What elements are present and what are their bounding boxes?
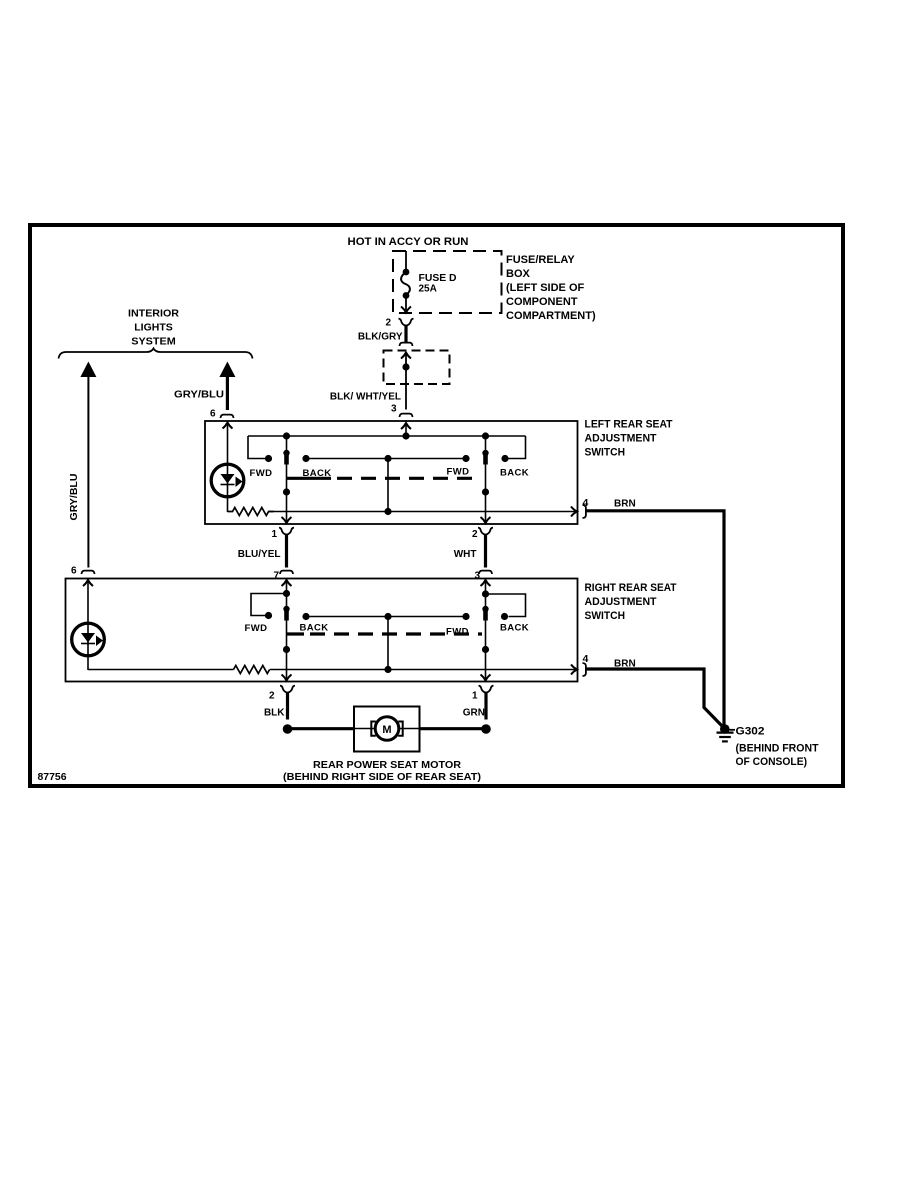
FRAME (decorative border, unlabeled content) <box>30 225 843 786</box>
switch wiper BACK (right) <box>485 580 487 681</box>
svg-text:FUSE/RELAY: FUSE/RELAY <box>506 254 575 266</box>
switch 1 pin 6 entry arrow <box>223 423 233 429</box>
right rear seat adjustment switch outline <box>66 579 578 682</box>
wire pin 6 to lamp <box>87 580 89 670</box>
cross wire BACK-FWD <box>306 458 466 460</box>
svg-text:BLK/GRY: BLK/GRY <box>358 332 403 343</box>
wire BRN (lower) <box>586 669 724 728</box>
connector (female cup, right switch pin 1) <box>479 686 494 693</box>
svg-text:G302: G302 <box>736 726 765 738</box>
svg-text:BLK: BLK <box>264 708 285 719</box>
connector (female cap, switch pin 3) <box>400 414 413 417</box>
cross wire BACK-FWD <box>306 616 466 618</box>
junction dot rail/wiper FWD <box>283 432 290 439</box>
wire cross to feed <box>387 459 389 512</box>
label REAR POWER SEAT MOTOR (BEHIND RIGHT SIDE OF REAR SEAT) <box>283 759 481 783</box>
svg-text:6: 6 <box>210 409 216 420</box>
connector (female cap, right switch pin 3) <box>479 571 492 574</box>
svg-text:REAR POWER SEAT MOTOR: REAR POWER SEAT MOTOR <box>313 759 461 771</box>
label INTERIOR LIGHTS SYSTEM <box>128 308 179 348</box>
junction dot BLK/motor <box>283 724 293 734</box>
svg-text:1: 1 <box>271 529 277 540</box>
svg-text:(LEFT SIDE OF: (LEFT SIDE OF <box>506 282 585 294</box>
wire BACK contact loop <box>509 436 526 459</box>
motor brush left <box>371 722 376 736</box>
switch 2 pin 1 arrow (down, out) <box>481 675 491 681</box>
wire BRN (upper) <box>586 511 724 726</box>
wire FWD contact loop <box>251 594 287 616</box>
svg-text:OF CONSOLE): OF CONSOLE) <box>736 756 808 768</box>
wire BLK/GRY <box>404 326 407 343</box>
svg-text:BACK: BACK <box>500 468 529 479</box>
connector (female cap, right switch pin 6) <box>82 571 95 574</box>
resistor (right switch) <box>234 666 270 674</box>
svg-text:BOX: BOX <box>506 268 531 280</box>
svg-text:2: 2 <box>385 318 391 329</box>
switch 2 pin 4 arrow (out) <box>571 665 577 675</box>
switch 1 pin 4 arrow (out) <box>571 507 577 517</box>
motor M1 <box>375 717 399 741</box>
switch 2 pin 6 entry arrow <box>83 580 93 586</box>
junction dot pin3/rail <box>402 432 409 439</box>
left rear seat adjustment switch outline <box>205 421 578 524</box>
wire lamp to resistor <box>88 669 234 671</box>
fuse D 25A <box>401 251 411 313</box>
wire from pin 6 to lamp <box>227 423 229 513</box>
svg-text:BRN: BRN <box>614 499 636 510</box>
rear power seat motor box <box>354 707 420 752</box>
svg-text:2: 2 <box>472 529 478 540</box>
connector (female cap, pin 4) <box>583 505 586 518</box>
label G302 (BEHIND FRONT OF CONSOLE) <box>736 726 819 769</box>
svg-text:1: 1 <box>472 690 478 701</box>
svg-text:BRN: BRN <box>614 659 636 670</box>
wire GRY/BLU left (to interior lights) <box>80 362 96 378</box>
svg-text:LIGHTS: LIGHTS <box>134 322 173 334</box>
wire pin4 feed line (bottom internal) <box>269 511 577 513</box>
svg-text:BACK: BACK <box>500 623 529 634</box>
connector (female cup, right switch pin 2) <box>280 686 295 693</box>
switch wiper BACK (right) <box>485 436 487 523</box>
svg-text:COMPARTMENT): COMPARTMENT) <box>506 310 596 322</box>
switch 1 pin 2 arrow (down, out) <box>481 517 491 523</box>
junction dot rail/wiper BACK <box>482 432 489 439</box>
fuse value label FUSE D 25A <box>419 273 457 295</box>
BACK contact dot <box>501 613 508 620</box>
svg-text:(BEHIND FRONT: (BEHIND FRONT <box>736 743 819 755</box>
svg-text:BACK: BACK <box>300 623 329 634</box>
svg-text:25A: 25A <box>419 284 437 295</box>
svg-text:M: M <box>382 724 391 736</box>
FWD contact dot <box>265 612 272 619</box>
switch wiper FWD (left) <box>286 436 288 523</box>
motor internal wire <box>354 728 420 730</box>
wire BACK contact loop <box>486 594 526 617</box>
junction block arrow (male, pin up) <box>401 353 411 359</box>
svg-text:SWITCH: SWITCH <box>585 447 626 459</box>
interior lights system brace <box>59 349 253 359</box>
connector (female cup, fuse box pin 2) <box>399 319 414 326</box>
switch 2 pin 7 entry arrow <box>282 580 292 586</box>
svg-text:BLK/ WHT/YEL: BLK/ WHT/YEL <box>330 392 401 403</box>
ground G302 <box>720 724 730 734</box>
svg-text:6: 6 <box>71 566 77 577</box>
illumination lamp (right switch) <box>72 623 105 656</box>
svg-text:7: 7 <box>273 571 279 582</box>
svg-text:BLU/YEL: BLU/YEL <box>238 549 281 560</box>
connector (female cup, pin 2) <box>478 528 493 535</box>
svg-text:(BEHIND RIGHT SIDE OF REAR SEA: (BEHIND RIGHT SIDE OF REAR SEAT) <box>283 771 481 783</box>
connector (female cap, pin 7) <box>280 571 293 574</box>
mechanical linkage (dashed) <box>287 632 305 635</box>
label RIGHT REAR SEAT ADJUSTMENT SWITCH <box>585 582 677 622</box>
svg-text:2: 2 <box>269 690 275 701</box>
fuse/relay box (dashed outline) <box>393 251 502 313</box>
FWD contact dot <box>265 455 272 462</box>
connector (female cap, left switch pin 6) <box>221 415 234 418</box>
svg-text:LEFT REAR SEAT: LEFT REAR SEAT <box>585 419 673 431</box>
svg-text:WHT: WHT <box>454 549 477 560</box>
wire GRY/BLU right (to interior lights) <box>219 362 235 378</box>
illumination lamp (left switch) <box>211 464 244 497</box>
svg-text:FWD: FWD <box>447 467 470 478</box>
connector (female cap to junction block) <box>400 343 413 346</box>
switch wiper FWD (left) <box>286 580 288 681</box>
svg-text:ADJUSTMENT: ADJUSTMENT <box>585 596 657 608</box>
svg-text:GRY/BLU: GRY/BLU <box>174 390 224 401</box>
svg-text:FWD: FWD <box>250 468 273 479</box>
wire FWD contact loop <box>248 436 265 459</box>
junction dot GRN/motor <box>481 724 491 734</box>
wire WHT <box>484 535 487 568</box>
mechanical linkage (dashed) <box>287 477 332 480</box>
svg-text:RIGHT REAR SEAT: RIGHT REAR SEAT <box>585 582 677 594</box>
wire through junction block <box>405 353 407 410</box>
svg-text:FWD: FWD <box>446 627 469 638</box>
switch 2 pin 2 arrow (down, out) <box>282 675 292 681</box>
svg-text:HOT IN ACCY OR RUN: HOT IN ACCY OR RUN <box>348 236 469 248</box>
svg-text:87756: 87756 <box>38 772 67 783</box>
wire to motor (left) <box>288 727 355 730</box>
svg-text:3: 3 <box>391 404 397 415</box>
wire pin3 to feed rail <box>405 423 407 436</box>
connector (female cap, right switch pin 4) <box>583 663 586 676</box>
resistor (left switch) <box>228 508 274 516</box>
junction block (dashed box) <box>384 351 450 385</box>
connector (female cup, pin 1) <box>279 528 294 535</box>
svg-text:FWD: FWD <box>245 623 268 634</box>
switch 1 pin 3 entry arrow <box>401 423 411 429</box>
svg-text:GRY/BLU: GRY/BLU <box>68 474 80 521</box>
svg-text:INTERIOR: INTERIOR <box>128 308 179 320</box>
svg-text:ADJUSTMENT: ADJUSTMENT <box>585 433 657 445</box>
label LEFT REAR SEAT ADJUSTMENT SWITCH <box>585 419 673 459</box>
wire BLK <box>286 693 289 720</box>
svg-text:SYSTEM: SYSTEM <box>131 336 176 348</box>
junction dot <box>402 363 409 370</box>
switch 1 pin 1 arrow (down, out) <box>282 517 292 523</box>
label FUSE/RELAY BOX (LEFT SIDE OF COMPONENT COMPARTMENT) <box>506 254 596 322</box>
svg-text:COMPONENT: COMPONENT <box>506 296 578 308</box>
switch 2 pin 3 entry arrow <box>481 580 491 586</box>
wire pin4 feed line (bottom internal) <box>270 669 577 671</box>
wire BLU/YEL <box>285 535 288 568</box>
wire GRN <box>484 693 487 720</box>
wire to motor (right) <box>420 727 487 730</box>
svg-text:SWITCH: SWITCH <box>585 610 626 622</box>
feed rail (top internal wire) <box>248 435 526 437</box>
BACK contact dot <box>501 455 508 462</box>
svg-text:GRN: GRN <box>463 708 485 719</box>
motor brush right <box>398 722 403 736</box>
svg-text:FUSE D: FUSE D <box>419 273 457 284</box>
wire cross to feed <box>387 617 389 670</box>
